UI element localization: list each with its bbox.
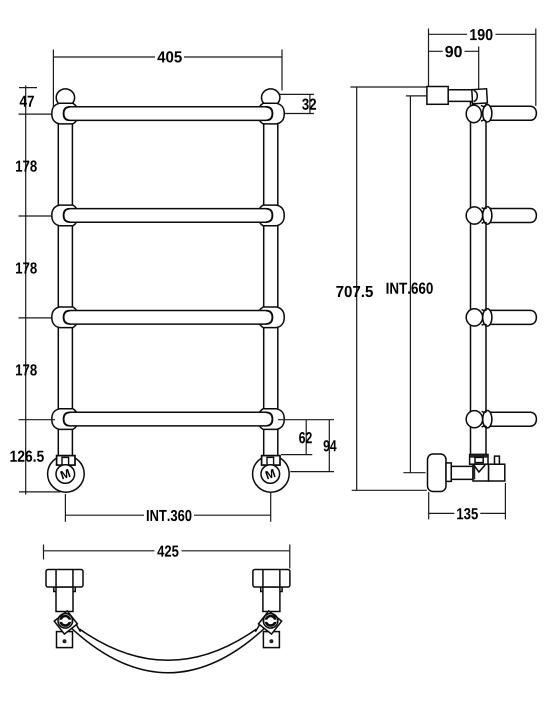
- dimension 190 text: [467, 28, 496, 40]
- left joint bar3: [52, 307, 79, 328]
- dimension 32: [280, 94, 314, 113]
- front view right post: [264, 96, 278, 456]
- side view valve right box: [489, 464, 505, 481]
- dimension 178 text (3): [16, 364, 37, 375]
- right cap finial: [262, 89, 280, 106]
- side ball joint 4: [466, 411, 482, 428]
- dimension 178 text (2): [16, 262, 37, 273]
- towel bar 1: [63, 107, 272, 121]
- dimension INT.660 text: [387, 283, 433, 294]
- towel bar 3: [63, 311, 272, 325]
- dimension 707.5: [350, 87, 427, 490]
- right joint bar4: [258, 409, 285, 430]
- dimension 90 text: [443, 45, 465, 57]
- dimension 190: [429, 29, 536, 106]
- bar end collars at y317.3: [64, 311, 70, 324]
- dimension 405 text: [155, 51, 184, 64]
- side peg 4: [486, 412, 536, 426]
- side view wall bracket (top): [427, 87, 448, 105]
- dimension INT.660: [403, 96, 427, 473]
- side view elbow pipe end arc: [474, 90, 478, 101]
- side view valve knob: [495, 456, 500, 464]
- left joint bar1: [52, 103, 79, 124]
- bottom view bar end marks: [75, 623, 261, 632]
- side view top pipe: [448, 90, 474, 102]
- dimension 47 text: [20, 96, 34, 107]
- left joint bar2: [52, 205, 79, 226]
- dimension 94 text: [324, 440, 337, 451]
- side view valve nut: [470, 455, 488, 465]
- left dimension chain line: [19, 86, 61, 495]
- side peg 3: [486, 310, 536, 324]
- side view valve body: [473, 464, 489, 481]
- side view wall flange (bottom): [428, 454, 447, 492]
- towel bar 4: [63, 412, 272, 426]
- side peg 1: [486, 106, 536, 120]
- dimension 425 text: [155, 545, 182, 557]
- right joint bar1: [258, 103, 285, 124]
- dimension 135 text: [454, 507, 480, 519]
- dimension INT.360: [65, 492, 270, 522]
- side ball joint 2: [466, 207, 482, 224]
- dimension INT.360 text: [144, 509, 194, 521]
- side ball joint 1: [466, 105, 481, 123]
- dimension 135: [429, 483, 506, 519]
- bottom view curved bar: [68, 625, 268, 673]
- side view flange connector: [446, 463, 451, 482]
- towel bar 2: [63, 209, 272, 223]
- bar end collars at y113.6: [64, 107, 70, 120]
- side ball joint 3: [466, 309, 482, 326]
- right joint bar3: [258, 307, 285, 328]
- bottom view left bracket: [46, 570, 83, 648]
- left cap finial: [56, 89, 74, 106]
- dimension 32 text: [302, 99, 316, 110]
- side view elbow: [472, 89, 488, 104]
- dimension 126.5 text: [10, 451, 43, 462]
- side view post: [471, 102, 487, 455]
- dimension 707.5 text: [336, 286, 373, 297]
- left joint bar4: [52, 409, 79, 430]
- dimension 62 text: [299, 432, 312, 443]
- side peg 2: [486, 209, 536, 223]
- bar end collars at y215.4: [64, 209, 70, 222]
- dimension 425: [44, 545, 290, 569]
- dimension 178 text (1): [16, 160, 37, 171]
- left valve (front view): [48, 456, 85, 493]
- front view left post: [58, 96, 72, 456]
- bottom view right bracket: [253, 570, 290, 648]
- bar end collars at y419.1: [64, 413, 70, 426]
- right valve (front view): [253, 456, 290, 493]
- dimensions 62 and 94: [278, 420, 334, 472]
- side view bottom pipe: [451, 466, 473, 479]
- dimension 405 line: [53, 50, 282, 108]
- right joint bar2: [258, 205, 285, 226]
- dimension 90: [429, 47, 479, 89]
